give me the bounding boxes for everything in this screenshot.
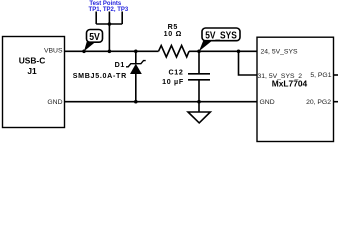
wire stub U1 pin 5 PG1 xyxy=(334,74,339,76)
test point TP1 stub xyxy=(95,12,97,25)
diode D1 zener cathode bar xyxy=(126,61,146,67)
junction branch on 5V_SYS rail xyxy=(237,50,241,54)
junction 5V flag on rail xyxy=(82,50,86,54)
svg-text:TP1, TP2, TP3: TP1, TP2, TP3 xyxy=(89,7,129,13)
wire branch to U1 pin 31 (5V_SYS_2) xyxy=(239,51,258,75)
wire stub U1 pin 20 PG2 xyxy=(334,101,339,103)
svg-text:10 Ω: 10 Ω xyxy=(164,30,182,38)
junction D1 bottom on GND rail xyxy=(134,100,138,104)
test point TP3 stub xyxy=(121,12,123,25)
svg-text:5V_SYS: 5V_SYS xyxy=(205,30,237,41)
svg-text:5, PG1: 5, PG1 xyxy=(310,72,331,79)
ground symbol stub xyxy=(198,102,200,112)
wire test-point tie bar xyxy=(96,23,122,25)
capacitor C12 bottom plate xyxy=(188,79,210,81)
ground symbol triangle xyxy=(188,112,210,123)
capacitor C12 bottom lead xyxy=(198,80,200,102)
wire test-point drop to 5V rail xyxy=(108,24,110,51)
svg-text:Test Points: Test Points xyxy=(89,1,122,7)
net flag 5V box xyxy=(87,30,103,43)
test point TP2 stub xyxy=(108,12,110,25)
connector J1 USB-C box xyxy=(3,37,65,128)
svg-text:31, 5V_SYS_2: 31, 5V_SYS_2 xyxy=(258,73,303,80)
svg-text:VBUS: VBUS xyxy=(44,47,63,54)
wire 5V_SYS net from R5 to U1 pin 24 xyxy=(189,50,257,52)
svg-text:SMBJ5.0A-TR: SMBJ5.0A-TR xyxy=(73,72,127,80)
junction at tie bar xyxy=(108,22,112,26)
net flag 5V pointer xyxy=(84,42,96,52)
svg-text:20, PG2: 20, PG2 xyxy=(306,99,331,106)
junction 5V_SYS flag / C12 on rail xyxy=(197,50,201,54)
svg-text:C12: C12 xyxy=(168,69,183,77)
capacitor C12 top lead xyxy=(198,51,200,74)
net flag 5V_SYS box xyxy=(202,28,240,41)
junction C12 bottom on GND rail xyxy=(197,100,201,104)
wire VBUS net (top rail) from J1 to R5 xyxy=(65,50,159,52)
svg-text:D1: D1 xyxy=(115,61,125,69)
svg-text:24, 5V_SYS: 24, 5V_SYS xyxy=(261,49,298,56)
svg-text:J1: J1 xyxy=(27,66,37,76)
diode D1 branch wire top xyxy=(135,51,137,64)
junction D1 top xyxy=(134,50,138,54)
wire GND rail from J1 to U1 xyxy=(65,101,258,103)
net flag 5V_SYS pointer xyxy=(199,40,213,51)
resistor R5 zigzag xyxy=(159,46,190,58)
diode D1 TVS anode triangle xyxy=(130,64,142,74)
svg-text:10 µF: 10 µF xyxy=(162,78,184,86)
svg-text:USB-C: USB-C xyxy=(19,55,46,65)
svg-text:MxL7704: MxL7704 xyxy=(272,78,308,88)
svg-text:5V: 5V xyxy=(89,31,100,43)
junction test-point drop on rail xyxy=(108,50,112,54)
capacitor C12 top plate xyxy=(188,73,210,75)
diode D1 branch wire bottom xyxy=(135,74,137,102)
svg-text:GND: GND xyxy=(47,99,62,106)
svg-text:GND: GND xyxy=(260,99,275,106)
IC MxL7704 box xyxy=(257,37,334,141)
